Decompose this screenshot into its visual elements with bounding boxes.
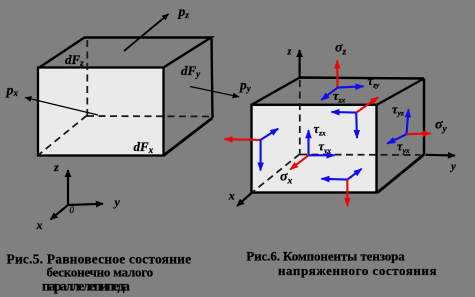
svg-text:z: z xyxy=(287,47,292,58)
arrow sigma_y (red, right) xyxy=(407,132,431,135)
svg-text:px: px xyxy=(6,84,19,99)
svg-text:τzx: τzx xyxy=(333,89,345,104)
svg-text:0: 0 xyxy=(70,205,75,215)
arrow tau back (blue, down) xyxy=(355,113,358,138)
arrow sigma left (red, left) xyxy=(225,138,261,141)
arrow tau_yx (blue, down-left) xyxy=(387,134,406,143)
arrow tau back (blue, left) xyxy=(332,111,357,114)
svg-text:Рис.6. Компоненты тензора: Рис.6. Компоненты тензора xyxy=(246,248,405,263)
svg-text:x: x xyxy=(228,188,235,202)
svg-text:py: py xyxy=(239,77,252,93)
bottom right edge xyxy=(164,118,213,156)
svg-text:dFz: dFz xyxy=(65,52,84,68)
svg-text:σz: σz xyxy=(335,41,347,58)
arrow sigma bottom (red, down) xyxy=(346,180,348,206)
arrow tau bottom (blue, left) xyxy=(322,178,348,181)
right back vertical edge xyxy=(212,38,213,118)
svg-text:x: x xyxy=(36,218,43,232)
arrow tau_zy (blue, right) xyxy=(338,86,364,87)
svg-text:y: y xyxy=(449,161,456,173)
arrow p_x from hidden corner xyxy=(25,98,98,116)
bottom right edge xyxy=(378,155,425,193)
arrow tau_yz (blue, up) xyxy=(407,110,409,135)
svg-text:параллелепипеда: параллелепипеда xyxy=(42,279,130,294)
arrow tau left (blue, down) xyxy=(260,140,262,171)
arrow sigma_z (red, up) xyxy=(336,61,338,88)
svg-text:y: y xyxy=(113,195,121,209)
top right edge xyxy=(377,79,425,106)
arrow tau_yx front (blue, right) xyxy=(309,154,335,156)
arrow sigma back (red, up-right) xyxy=(356,97,378,112)
z axis of right figure xyxy=(299,50,301,77)
arrow sigma_x (red, down-left) xyxy=(290,155,308,169)
y axis xyxy=(68,204,103,205)
hidden vertical edge (dashed) xyxy=(299,80,301,154)
svg-text:τyx: τyx xyxy=(397,140,410,155)
svg-text:dFy: dFy xyxy=(181,63,201,79)
y axis of right figure xyxy=(426,154,456,157)
z axis xyxy=(67,170,69,205)
svg-text:σy: σy xyxy=(435,118,448,135)
arrow p_z from top face xyxy=(124,14,169,51)
top face edges xyxy=(39,38,212,69)
top face edges xyxy=(252,78,424,105)
svg-text:pz: pz xyxy=(178,4,190,21)
hidden bottom back edge (dashed) xyxy=(300,154,421,157)
svg-text:τzy: τzy xyxy=(368,74,380,89)
x axis of right figure xyxy=(237,193,252,206)
hidden bottom left edge (dashed) xyxy=(252,154,300,193)
front face of stress cube xyxy=(252,105,377,193)
svg-text:τyz: τyz xyxy=(392,102,404,117)
arrow tau bottom (blue, up-right) xyxy=(347,169,361,180)
svg-text:z: z xyxy=(53,160,59,174)
arrow tau_zx (blue, down-left) xyxy=(321,88,337,100)
svg-text:бесконечно малого: бесконечно малого xyxy=(47,264,153,279)
arrow tau left (blue, up-right) xyxy=(261,129,279,140)
hidden vertical edge (dashed) xyxy=(86,40,88,116)
hidden bottom back edge (dashed) xyxy=(87,115,210,118)
arrow tau_zx front (blue, up) xyxy=(307,130,309,155)
x axis xyxy=(51,205,69,220)
hidden bottom left edge (dashed) xyxy=(39,116,87,155)
right back vertical edge xyxy=(423,79,425,155)
arrow p_y from right face xyxy=(190,87,239,97)
svg-text:напряженного состояния: напряженного состояния xyxy=(278,263,437,278)
front face dF_x of parallelepiped xyxy=(38,68,164,156)
